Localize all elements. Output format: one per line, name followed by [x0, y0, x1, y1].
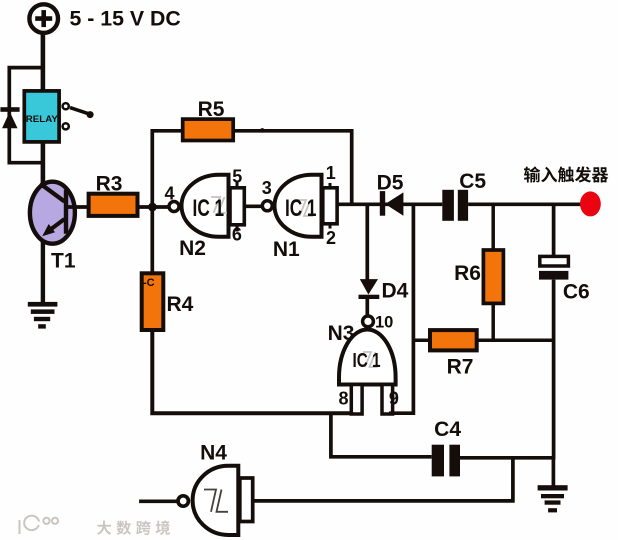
- svg-text:5: 5: [232, 167, 242, 187]
- wire: R6 bottom to R7 rail: [491, 303, 495, 340]
- svg-text:R4: R4: [167, 293, 194, 316]
- wire: C6 bottom down to ground rail: [552, 280, 556, 460]
- svg-text:5 - 15 V DC: 5 - 15 V DC: [70, 7, 181, 31]
- svg-text:N3: N3: [328, 322, 355, 345]
- svg-text:C4: C4: [434, 418, 461, 441]
- diode D5: [380, 191, 404, 216]
- watermark logo (bottom left): [20, 516, 59, 534]
- grey schmitt watermark in N1: [297, 200, 313, 216]
- svg-text:1: 1: [326, 163, 336, 183]
- capacitor C5: [442, 190, 468, 221]
- svg-text:R7: R7: [447, 355, 474, 378]
- diode D4 (pointing down): [359, 279, 380, 315]
- svg-text:R3: R3: [96, 172, 123, 195]
- svg-text:4: 4: [164, 183, 174, 203]
- wire: T1 base to R3 and node: [64, 205, 170, 209]
- svg-text:C6: C6: [563, 281, 590, 304]
- resistor R7: [430, 330, 477, 350]
- relay switch contact: [63, 103, 94, 129]
- node: junction R3 / N2 output / R4 / R5: [148, 203, 157, 212]
- stray dot on R5 rail: [260, 128, 265, 133]
- wire: +V terminal down to relay: [41, 33, 46, 92]
- ground (under T1): [28, 302, 58, 329]
- wire: junction up to R5 rail, right and down to N1 input node: [152, 131, 351, 275]
- wire: R7 rail: [413, 339, 553, 343]
- resistor R3: [89, 194, 138, 216]
- svg-text:D5: D5: [377, 172, 404, 195]
- input trigger terminal (red): [580, 191, 601, 216]
- svg-text:8: 8: [338, 389, 348, 409]
- svg-text:C5: C5: [459, 170, 486, 193]
- svg-text:IC 1: IC 1: [285, 195, 317, 222]
- svg-text:R6: R6: [454, 262, 481, 285]
- svg-text:9: 9: [389, 389, 399, 409]
- wire: bottom rail branch down to C4: [331, 413, 432, 457]
- transistor T1 (NPN): [30, 182, 75, 244]
- svg-text:IC 1: IC 1: [193, 195, 225, 222]
- resistor R6: [483, 250, 503, 303]
- label: 输入触发器 (input trigger): [524, 166, 608, 182]
- svg-text:N1: N1: [273, 238, 300, 261]
- power supply positive terminal: [29, 4, 58, 33]
- grey schmitt watermark in N2: [211, 197, 227, 213]
- wire: R4 down and bottom rail to N3 pin 8: [152, 329, 361, 413]
- watermark text 大数跨境: [97, 521, 170, 535]
- nand gate N4 (schmitt, mirrored): [178, 466, 253, 535]
- svg-text:3: 3: [262, 178, 272, 198]
- resistor R4: [142, 273, 164, 330]
- svg-text:N4: N4: [200, 441, 227, 464]
- resistor R5: [183, 119, 234, 140]
- capacitor C6 (polarized): [539, 256, 568, 279]
- wire: node A (N1 inputs / D5 / D4 / R5): [337, 202, 442, 206]
- svg-text:2: 2: [326, 228, 336, 248]
- wire: C5 to trigger terminal: [468, 202, 582, 206]
- wire: R6 top: [491, 204, 495, 251]
- svg-text:RELAY: RELAY: [26, 114, 58, 124]
- capacitor C4: [432, 445, 460, 477]
- svg-text:T1: T1: [51, 250, 76, 273]
- wire: N4 input: [139, 499, 178, 503]
- ground (bottom right): [538, 458, 568, 513]
- wire: N2 inputs to N1 output bubble: [244, 204, 262, 208]
- nand gate N3 (output up, bubble pin 10): [339, 316, 396, 414]
- svg-text:6: 6: [232, 225, 242, 245]
- svg-text:N2: N2: [179, 237, 206, 260]
- nand gate N2 (mirrored, output bubble on left): [169, 175, 244, 237]
- svg-text:D4: D4: [381, 279, 408, 302]
- svg-text:IC 1: IC 1: [353, 350, 381, 372]
- wire: N4 output to C4/ground rail: [253, 458, 513, 501]
- svg-text:-C: -C: [143, 277, 155, 289]
- wire: relay to T1 collector: [41, 142, 46, 185]
- flyback diode across relay (cathode bar up): [0, 107, 19, 128]
- wire: node A down to D4: [365, 204, 369, 280]
- wire: flyback diode loop (left of relay): [9, 68, 43, 163]
- wire: C4 right to ground: [460, 456, 555, 460]
- wire: right vertical from node A down to pin 9: [389, 204, 413, 413]
- nand gate N1 (mirrored, output bubble on left): [262, 175, 337, 237]
- wire: T1 emitter to ground: [41, 241, 45, 304]
- svg-text:R5: R5: [198, 98, 225, 121]
- wire: C6 vertical top: [552, 204, 556, 256]
- svg-text:10: 10: [375, 313, 393, 331]
- relay K1 coil: [24, 91, 59, 142]
- grey schmitt watermark in N3: [363, 352, 378, 367]
